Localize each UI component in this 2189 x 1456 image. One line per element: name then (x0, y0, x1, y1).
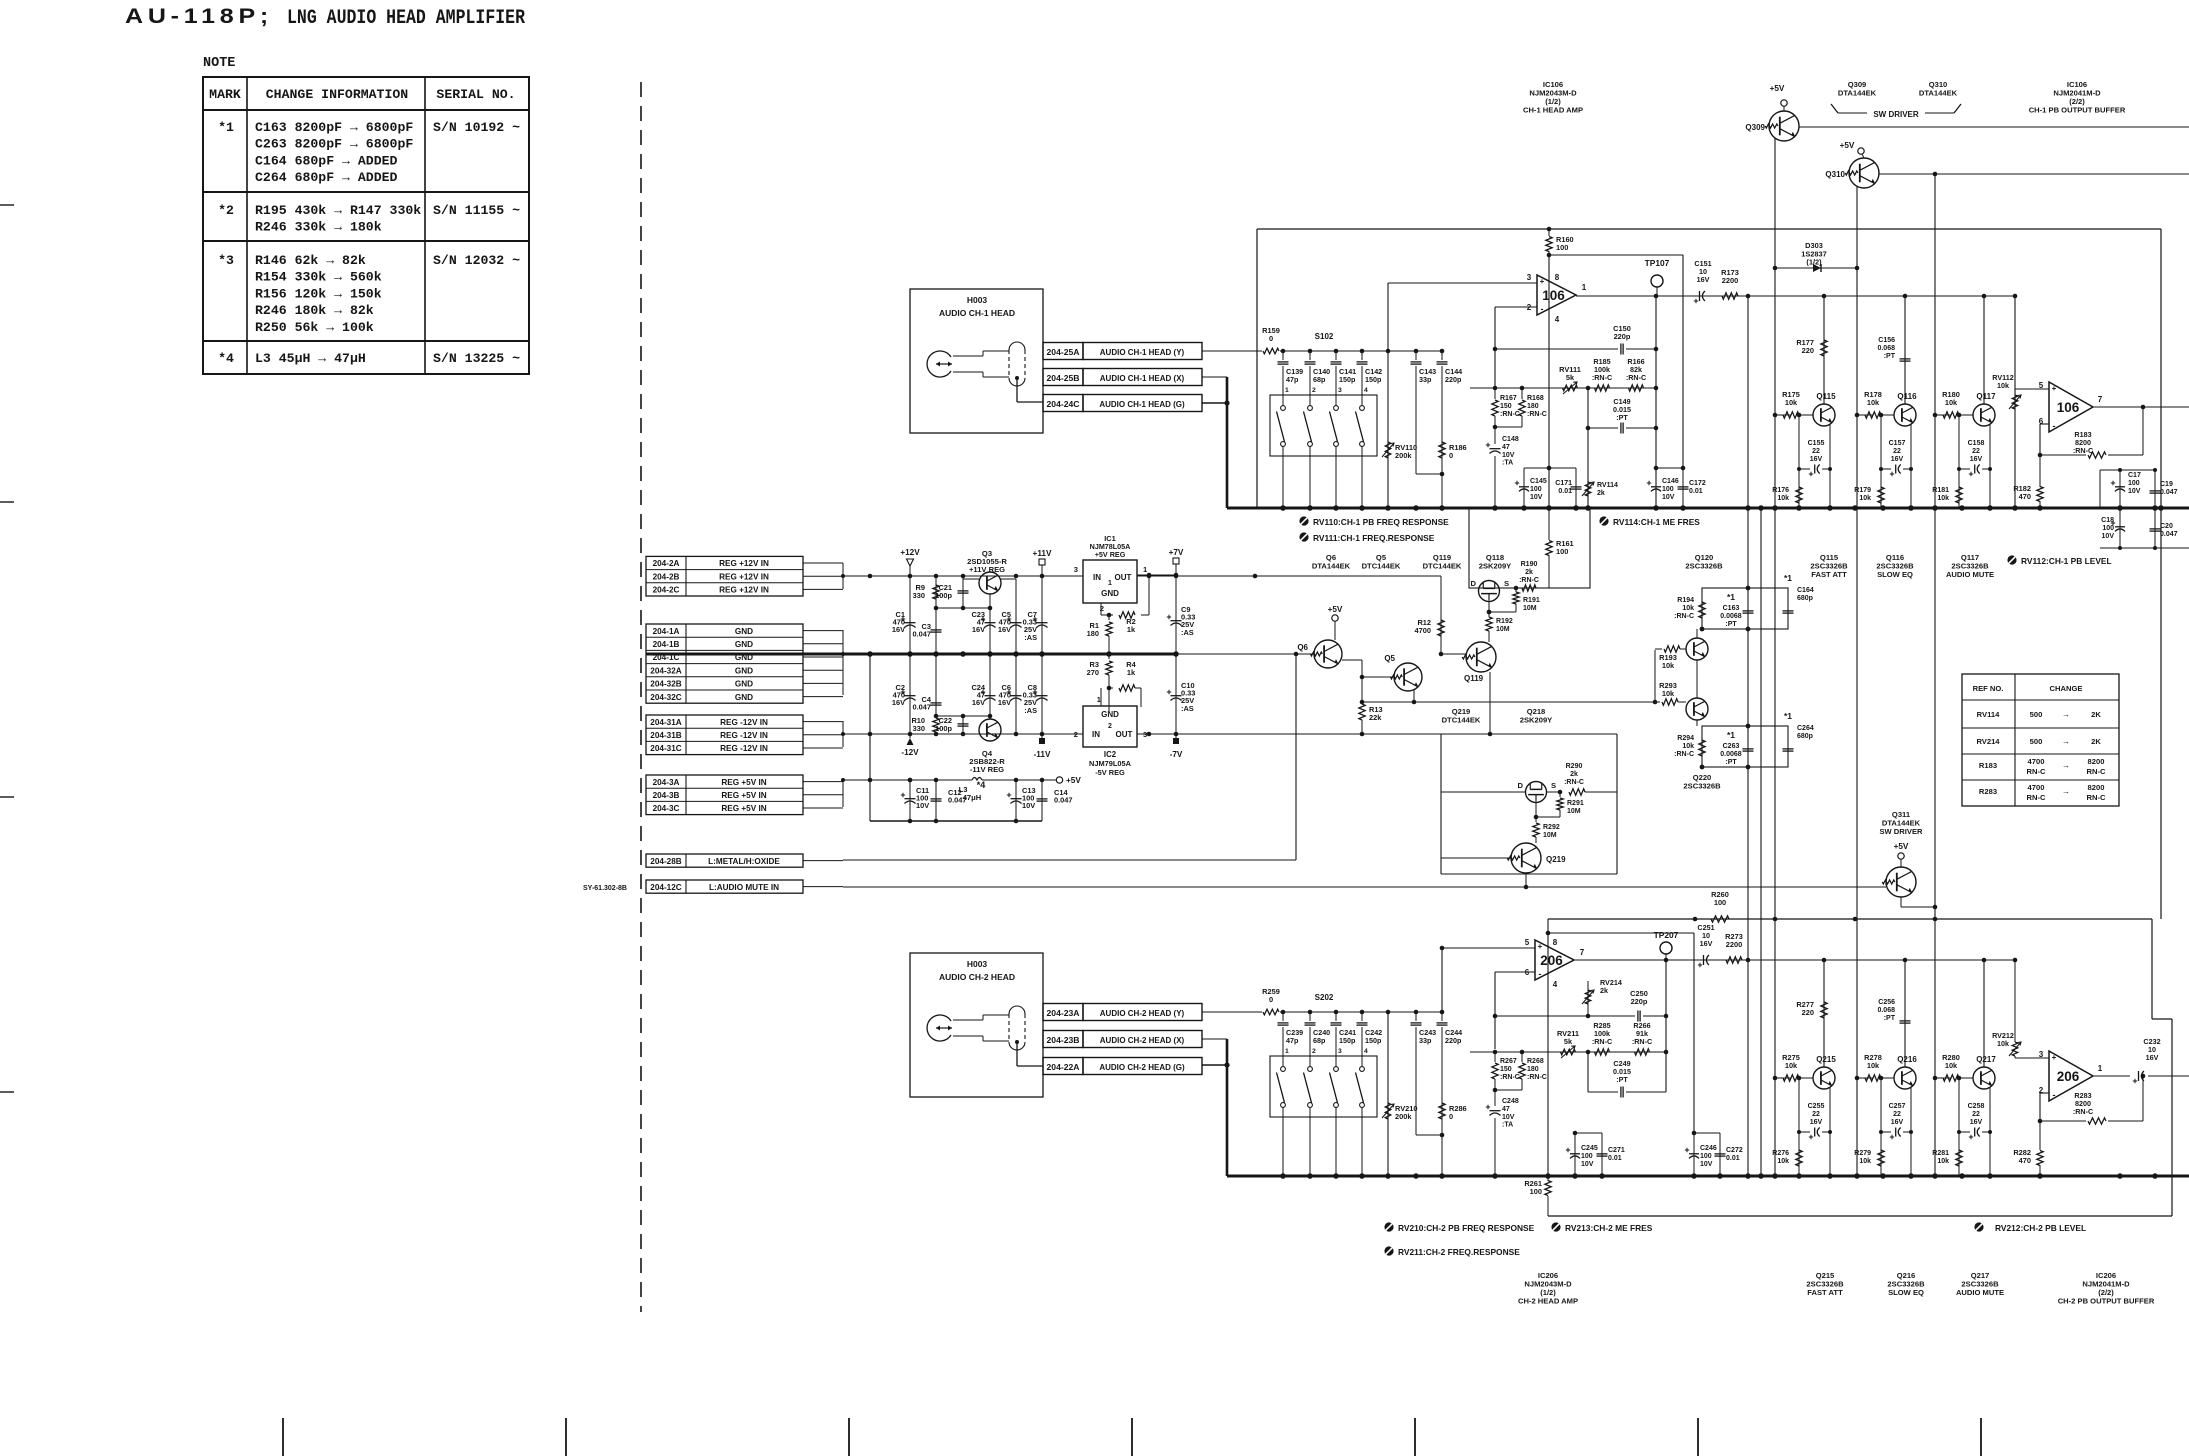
wire IC2 pin1 (1100, 688, 1102, 706)
wire buffer output (2093, 405, 2189, 410)
svg-text:DTC144EK: DTC144EK (1362, 562, 1401, 571)
svg-text:22: 22 (1972, 1111, 1980, 1118)
svg-text:4: 4 (1553, 980, 1558, 989)
label IC106 (2/2) CH-1 PB OUTPUT BUFFER (2029, 80, 2126, 115)
op-amp IC106 (2/2) (2039, 381, 2103, 432)
svg-text:10V: 10V (2102, 533, 2115, 540)
svg-text:FAST ATT: FAST ATT (1811, 570, 1847, 579)
svg-text:DTA144EK: DTA144EK (1312, 562, 1351, 571)
svg-text:4700: 4700 (2028, 757, 2045, 766)
wire vertical bus A (1747, 296, 1749, 1176)
trimmer RV212 10k (1992, 960, 2021, 1056)
label Q120 2SC3326B (1685, 553, 1723, 571)
svg-text:IN: IN (1093, 573, 1101, 582)
svg-text:R279: R279 (1854, 1150, 1871, 1157)
svg-text:AUDIO CH-2 HEAD (X): AUDIO CH-2 HEAD (X) (1100, 1036, 1185, 1045)
svg-text:OUT: OUT (1116, 730, 1133, 739)
svg-text:AUDIO CH-2 HEAD: AUDIO CH-2 HEAD (939, 972, 1015, 982)
svg-text:-: - (2053, 421, 2056, 431)
note change-information table (203, 77, 529, 374)
svg-text:LNG AUDIO HEAD AMPLIFIER: LNG AUDIO HEAD AMPLIFIER (287, 7, 525, 30)
svg-text:100: 100 (1714, 898, 1726, 907)
svg-text::RN-C: :RN-C (1632, 1037, 1652, 1046)
svg-text:204-24C: 204-24C (1047, 399, 1080, 409)
wire Q3 base network (934, 575, 993, 610)
wire Q218 source (1547, 790, 1562, 795)
wire Q219 emitter (1524, 873, 1529, 889)
connector pill 204-25B (1043, 369, 1202, 386)
wire TP107 column (1654, 296, 1659, 508)
capacitor C1 470 16V (892, 575, 916, 654)
capacitor C11 100 10V (901, 780, 929, 821)
resistor R168 180 (1493, 388, 1547, 429)
svg-text:L:AUDIO MUTE IN: L:AUDIO MUTE IN (709, 883, 779, 892)
svg-text:204-31C: 204-31C (650, 744, 681, 753)
svg-text:S/N 10192 ~: S/N 10192 ~ (433, 120, 520, 135)
svg-text::RN-C: :RN-C (1674, 751, 1694, 758)
svg-text:180: 180 (1527, 1066, 1539, 1073)
note RV112 CH-1 PB LEVEL (2007, 555, 2111, 566)
resistor R1 180 (1087, 615, 1113, 654)
svg-text:206: 206 (2057, 1069, 2080, 1084)
svg-text:-12V: -12V (901, 748, 919, 757)
svg-text:R168: R168 (1527, 395, 1544, 402)
capacitor C3 0.047 (913, 608, 942, 654)
svg-text:R194: R194 (1677, 597, 1694, 604)
svg-text:R290: R290 (1566, 763, 1583, 770)
resistor R292 10M (1533, 802, 1560, 843)
svg-text:16V: 16V (1700, 939, 1713, 948)
net label SY-61.302-8B (583, 885, 627, 892)
svg-text:DTC144EK: DTC144EK (1442, 716, 1481, 725)
svg-text:5k: 5k (1564, 1037, 1573, 1046)
wire +5V filter return (870, 654, 1042, 823)
capacitor C19 0.047 (2150, 470, 2178, 508)
wire C245 C271 top link (1573, 1131, 1602, 1136)
svg-text:C145: C145 (1530, 478, 1547, 485)
svg-text:68p: 68p (1313, 1036, 1326, 1045)
svg-text:100: 100 (2102, 525, 2114, 532)
inductor L3 47uH (959, 778, 986, 803)
left margin tick 1 (0, 204, 14, 206)
CH-1 circuit box right border (2160, 229, 2162, 919)
wire Q217 collector 2 (1982, 958, 1987, 1067)
resistor R186 0 (1439, 442, 1467, 460)
svg-text:16V: 16V (1810, 456, 1823, 463)
svg-text:→: → (2062, 737, 2070, 746)
op-amp IC106 (1/2) (1527, 273, 1587, 324)
svg-text:*1: *1 (1784, 711, 1792, 721)
svg-text:C164 680pF → ADDED: C164 680pF → ADDED (255, 153, 398, 168)
capacitor C172 0.01 (1678, 468, 1706, 508)
svg-text:CH-2 HEAD AMP: CH-2 HEAD AMP (1518, 1297, 1578, 1306)
resistor R12 4700 (1415, 576, 1445, 654)
svg-text:RV114: RV114 (1597, 482, 1618, 489)
capacitor C148 47 10V TA (1486, 427, 1519, 508)
resistor R266 91k (1632, 1021, 1652, 1055)
capacitor C256 0.068 PT (1877, 960, 1910, 1067)
wire IC2 out -7V rail (1137, 732, 1617, 737)
switch S102 box (1270, 395, 1377, 456)
transistor Q120 pair upper (1686, 638, 1708, 660)
svg-text:R190: R190 (1521, 561, 1538, 568)
svg-text:+7V: +7V (1169, 548, 1184, 557)
svg-text:10k: 10k (1945, 1061, 1958, 1070)
svg-text:+11V: +11V (1033, 549, 1052, 558)
svg-text:RN-C: RN-C (2087, 767, 2106, 776)
svg-text:0.068: 0.068 (1877, 345, 1895, 352)
svg-text:+5V REG: +5V REG (1095, 550, 1126, 559)
svg-text:H003: H003 (967, 295, 988, 305)
svg-text:Q310: Q310 (1825, 170, 1845, 179)
capacitor C241 150p (1331, 1012, 1357, 1066)
bottom margin tick 3 (848, 1418, 850, 1456)
wire buffer -input (2038, 424, 2049, 457)
trimmer RV210 200k (1382, 1012, 1417, 1176)
svg-text:3: 3 (1527, 273, 1532, 282)
svg-text:+: + (1538, 942, 1543, 951)
svg-text:2200: 2200 (1726, 940, 1742, 949)
capacitor C246 100 10V (1685, 1133, 1717, 1176)
label Q216 SLOW EQ (1887, 1271, 1925, 1297)
svg-text:RV114: RV114 (1977, 710, 2000, 719)
resistor R191 10M (1487, 588, 1540, 614)
switch S102 pole 1 (1277, 406, 1286, 508)
svg-text::AS: :AS (1024, 706, 1037, 715)
label Q116 SLOW EQ (1876, 553, 1914, 579)
svg-text:22: 22 (1812, 448, 1820, 455)
svg-text:GND: GND (735, 627, 753, 636)
svg-text:+11V REG: +11V REG (969, 565, 1005, 574)
label IC206 (1/2) CH-2 HEAD AMP (1518, 1271, 1578, 1306)
svg-text:1k: 1k (1127, 625, 1136, 634)
wire op-amp2 +input (1442, 948, 1535, 1012)
power flag -7V (1170, 734, 1183, 759)
svg-text:1: 1 (1582, 283, 1587, 292)
svg-text:→: → (2062, 787, 2070, 796)
resistor R166 82k (1626, 357, 1646, 391)
REF NO / CHANGE table (1962, 674, 2119, 806)
wire vertical bus B (1760, 508, 1762, 1176)
svg-text:+5V: +5V (1066, 776, 1081, 785)
wire Q3 collector (963, 578, 1016, 580)
label Q220 2SC3326B (1683, 773, 1721, 791)
svg-text:204-25B: 204-25B (1047, 373, 1080, 383)
svg-text:204-23B: 204-23B (1047, 1035, 1080, 1045)
svg-text:2: 2 (1074, 730, 1078, 739)
svg-text:Q217: Q217 (1976, 1055, 1996, 1064)
capacitor C271 0.01 (1597, 1133, 1625, 1176)
svg-text:R176: R176 (1772, 487, 1789, 494)
svg-text:16V: 16V (1970, 1119, 1983, 1126)
svg-text:220: 220 (1802, 1008, 1814, 1017)
svg-text:10k: 10k (1777, 495, 1789, 502)
transistor Q219 (1441, 843, 1566, 873)
resistor R160 100 (1546, 227, 1574, 258)
svg-text:1: 1 (1285, 387, 1289, 394)
svg-text:REF NO.: REF NO. (1973, 684, 2004, 693)
svg-text:GND: GND (735, 666, 753, 675)
resistor R286 0 (1439, 1103, 1467, 1121)
wire CH-2 head X line (1202, 1039, 1227, 1176)
wire TP207 column (1664, 960, 1669, 1092)
svg-text:DTA144EK: DTA144EK (1838, 89, 1877, 98)
svg-text:204-31B: 204-31B (650, 731, 681, 740)
svg-text:204-25A: 204-25A (1047, 347, 1080, 357)
label Q215 FAST ATT (1806, 1271, 1844, 1297)
svg-text:10M: 10M (1496, 626, 1510, 633)
svg-text:R179: R179 (1854, 487, 1871, 494)
svg-text:C17: C17 (2128, 472, 2141, 479)
regulator IC1 NJM78L05A (1074, 534, 1148, 613)
svg-text:+: + (2052, 384, 2057, 393)
note RV114 CH-1 ME FRES (1599, 516, 1700, 527)
svg-text:C171: C171 (1555, 480, 1572, 487)
svg-text:0.0068: 0.0068 (1720, 751, 1742, 758)
svg-text:D: D (1471, 579, 1477, 588)
svg-text:R154 330k → 560k: R154 330k → 560k (255, 270, 382, 285)
svg-text:+5V: +5V (1894, 842, 1909, 851)
svg-text::RN-C: :RN-C (1500, 411, 1520, 418)
wire Q218 drain (1441, 791, 1525, 793)
capacitor C249 0.015 PT (1588, 1059, 1666, 1098)
wire vertical bus C (1773, 268, 1778, 1176)
svg-text:200k: 200k (1395, 1112, 1412, 1121)
svg-text:680p: 680p (1797, 733, 1813, 740)
svg-text:*2: *2 (218, 203, 234, 218)
svg-text:S/N 11155 ~: S/N 11155 ~ (433, 203, 520, 218)
svg-text:206: 206 (1540, 953, 1563, 968)
svg-text:+12V: +12V (900, 548, 920, 557)
connector pill 204-22A (1043, 1058, 1202, 1075)
label S202 (1315, 993, 1334, 1002)
CH-2 circuit box left border (1546, 919, 1551, 1176)
svg-text::PT: :PT (1616, 1075, 1628, 1084)
transistor Q309 (1765, 111, 2189, 141)
label Q310 DTA144EK (1919, 80, 1958, 98)
Q219 cell box (1441, 734, 1617, 874)
label IC206 (2/2) CH-2 PB OUTPUT BUFFER (2058, 1271, 2155, 1306)
svg-text::TA: :TA (1502, 1122, 1513, 1129)
svg-text:C146: C146 (1662, 478, 1679, 485)
switch S202 pole 1 (1277, 1067, 1286, 1176)
svg-text:CHANGE: CHANGE (2050, 684, 2083, 693)
svg-text:47: 47 (1502, 1106, 1510, 1113)
svg-text:33p: 33p (1419, 375, 1432, 384)
capacitor C240 68p (1305, 1012, 1331, 1066)
svg-text:AUDIO CH-1 HEAD (Y): AUDIO CH-1 HEAD (Y) (1100, 348, 1185, 357)
svg-text:22: 22 (1893, 448, 1901, 455)
svg-text:R246 180k → 82k: R246 180k → 82k (255, 303, 374, 318)
svg-text:100: 100 (1556, 243, 1568, 252)
svg-text:C264: C264 (1797, 725, 1814, 732)
svg-text:NJM79L05A: NJM79L05A (1089, 759, 1132, 768)
resistor R291 10M (1534, 792, 1584, 819)
resistor R259 0 (1202, 987, 1280, 1015)
note RV210 CH-2 PB FREQ RESPONSE (1384, 1222, 1534, 1233)
wire L:AUDIO MUTE IN net (843, 886, 1886, 888)
connector pill 204-25A (1043, 343, 1202, 360)
svg-text:16V: 16V (998, 625, 1011, 634)
svg-text:S202: S202 (1315, 993, 1334, 1002)
transistor Q4 (969, 719, 1005, 774)
svg-text:→: → (2062, 710, 2070, 719)
capacitor C5 470 16V (998, 579, 1022, 654)
capacitor C21 100p (935, 583, 968, 600)
capacitor C239 47p (1278, 1012, 1304, 1066)
svg-text::RN-C: :RN-C (1592, 1037, 1612, 1046)
note heading (203, 56, 235, 71)
svg-text:5k: 5k (1566, 373, 1575, 382)
wire CH-1 head Y line (1280, 349, 1444, 354)
label Q218 2SK209Y (1520, 707, 1553, 725)
wire inner feedback rail 2 (1548, 933, 1694, 1133)
svg-text:0: 0 (1449, 1112, 1453, 1121)
svg-text:+5V: +5V (1328, 605, 1343, 614)
svg-text:*4: *4 (977, 780, 986, 790)
svg-text:3: 3 (1074, 565, 1078, 574)
svg-text:204-32A: 204-32A (650, 666, 681, 675)
svg-text:AUDIO MUTE: AUDIO MUTE (1946, 570, 1994, 579)
svg-text:204-3C: 204-3C (653, 804, 680, 813)
svg-text:R156 120k → 150k: R156 120k → 150k (255, 286, 382, 301)
svg-text:16V: 16V (1810, 1119, 1823, 1126)
capacitor C151 10 16V (1694, 259, 1712, 303)
resistor R192 10M (1486, 601, 1513, 633)
svg-text:68p: 68p (1313, 375, 1326, 384)
svg-text:3: 3 (2039, 1050, 2044, 1059)
resistor R268 180 (1493, 1052, 1547, 1092)
svg-text::PT: :PT (1616, 413, 1628, 422)
svg-text:RV214: RV214 (1976, 737, 2000, 746)
svg-text:FAST ATT: FAST ATT (1807, 1288, 1843, 1297)
svg-text:+: + (2052, 1053, 2057, 1062)
label IC106 (1/2) CH-1 HEAD AMP (1523, 80, 1583, 115)
svg-text:150p: 150p (1339, 375, 1356, 384)
svg-text:S: S (1551, 781, 1556, 790)
svg-text:2k: 2k (1600, 986, 1608, 995)
svg-text:47p: 47p (1286, 1036, 1299, 1045)
note RV213 CH-2 ME FRES (1551, 1222, 1652, 1233)
wire output rail2 right (1748, 958, 2017, 963)
svg-text::RN-C: :RN-C (2073, 446, 2093, 455)
capacitor C145 100 10V (1515, 468, 1547, 508)
wire Q119 collector (1488, 631, 1490, 642)
bottom margin tick 4 (1131, 1418, 1133, 1456)
svg-text:10V: 10V (1530, 494, 1543, 501)
wire R193 link (1655, 649, 1662, 702)
svg-text:2K: 2K (2091, 737, 2101, 746)
svg-text:C271: C271 (1608, 1147, 1625, 1154)
svg-text:C155: C155 (1808, 440, 1825, 447)
regulator IC2 NJM79L05A (1074, 695, 1147, 777)
svg-text:0.01: 0.01 (1558, 488, 1572, 495)
svg-text::RN-C: :RN-C (1674, 613, 1694, 620)
svg-text::AS: :AS (1181, 704, 1194, 713)
wire -12V rail (843, 732, 1083, 737)
svg-text:*3: *3 (218, 253, 234, 268)
wire connector merge (841, 721, 846, 747)
svg-text:C164: C164 (1797, 587, 1814, 594)
svg-text:-5V REG: -5V REG (1095, 768, 1125, 777)
svg-text:220p: 220p (1631, 997, 1648, 1006)
svg-text:C272: C272 (1726, 1147, 1743, 1154)
svg-text:150: 150 (1500, 1066, 1512, 1073)
svg-text:SW DRIVER: SW DRIVER (1873, 110, 1919, 119)
svg-text:204-2C: 204-2C (653, 586, 680, 595)
svg-text:150: 150 (1500, 403, 1512, 410)
svg-text:*1: *1 (1784, 573, 1792, 583)
svg-text:2200: 2200 (1722, 276, 1738, 285)
CH-1 circuit box left border (1256, 229, 1258, 508)
svg-text:C18: C18 (2101, 517, 2114, 524)
svg-text:10V: 10V (1502, 452, 1515, 459)
svg-text:10k: 10k (1682, 743, 1694, 750)
H003 AUDIO CH-1 HEAD box (910, 289, 1043, 433)
connector pill 204-23B (1043, 1031, 1202, 1048)
switch S102 pole 4 (1356, 406, 1365, 508)
capacitor C140 68p (1305, 351, 1331, 405)
power flag -12V (901, 734, 919, 757)
transistor Q3 (967, 549, 1007, 594)
transistor Q5 (1384, 654, 1422, 691)
wire buffer output 2 (2093, 1074, 2145, 1079)
svg-text:C158: C158 (1968, 440, 1985, 447)
svg-text:R281: R281 (1932, 1150, 1949, 1157)
fet Q118 2SK209Y (1471, 579, 1510, 602)
svg-text:IC2: IC2 (1104, 750, 1117, 759)
svg-text:0.01: 0.01 (1726, 1155, 1740, 1162)
note RV110 CH-1 PB FREQ RESPONSE (1299, 516, 1449, 527)
svg-text:0.047: 0.047 (2160, 531, 2178, 538)
wire mid row 702 (1362, 700, 1660, 705)
svg-text::PT: :PT (1884, 1015, 1896, 1022)
transistor Q217 cell (R280/C258/R281) (1932, 1053, 1996, 1176)
svg-text:*1: *1 (1727, 592, 1735, 602)
switch S102 pole 3 (1330, 406, 1339, 508)
transistor Q115 cell (R175/C155/R176) (1772, 390, 1836, 508)
wire op-amp +input (1388, 283, 1537, 351)
svg-text:680p: 680p (1797, 595, 1813, 602)
svg-text:0.047: 0.047 (913, 703, 932, 712)
wire Q309 collector drop (1773, 138, 1778, 270)
svg-text:2: 2 (1108, 723, 1112, 730)
svg-text:-11V REG: -11V REG (970, 765, 1004, 774)
power flag +5V circle (1056, 776, 1081, 785)
capacitor C164 680p (1783, 573, 1814, 613)
svg-text:0.01: 0.01 (1689, 488, 1703, 495)
capacitor C242 150p (1357, 1012, 1383, 1066)
svg-text:2k: 2k (1597, 490, 1605, 497)
svg-text:16V: 16V (2146, 1053, 2159, 1062)
svg-text:100: 100 (1530, 1187, 1542, 1196)
capacitor C243 33p (1411, 1012, 1443, 1135)
svg-text:RV110:CH-1 PB FREQ RESPONSE: RV110:CH-1 PB FREQ RESPONSE (1313, 517, 1449, 527)
capacitor C13 100 10V (1007, 780, 1036, 821)
svg-text:10M: 10M (1543, 832, 1557, 839)
capacitor C22 100p (935, 716, 968, 734)
svg-text:4700: 4700 (2028, 783, 2045, 792)
connector 204-31 REG -12V IN (646, 715, 843, 755)
connector 204-12C L:AUDIO MUTE IN (646, 880, 843, 893)
svg-text:10k: 10k (1662, 689, 1675, 698)
svg-text:Q116: Q116 (1897, 392, 1917, 401)
trimmer RV111 5k (1559, 365, 1581, 394)
capacitor C264 680p (1783, 711, 1814, 751)
svg-text:C20: C20 (2160, 523, 2173, 530)
capacitor C144 220p (1437, 351, 1463, 508)
svg-text:204-2B: 204-2B (653, 572, 680, 581)
